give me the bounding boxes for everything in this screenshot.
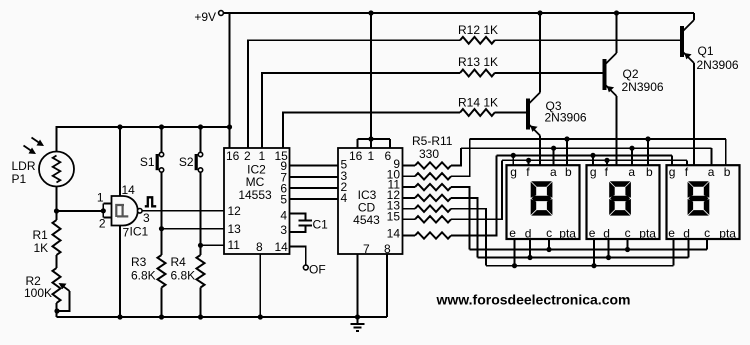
wire D3 b drop xyxy=(725,139,727,165)
wire D3 c drop xyxy=(706,239,708,250)
svg-text:6: 6 xyxy=(385,149,392,163)
switch S2 xyxy=(195,127,203,245)
+9V supply terminal xyxy=(194,10,223,24)
label IC3 pin2 xyxy=(341,180,348,194)
wire bus-b xyxy=(470,138,726,140)
ground xyxy=(351,317,365,331)
label IC3 pin11r xyxy=(388,178,401,192)
label D3 e xyxy=(668,226,675,240)
IC1 hysteresis symbol xyxy=(116,205,128,217)
wire bus-a xyxy=(461,147,711,149)
label IC3 pin1 top xyxy=(368,149,375,163)
label IC2 pin15 top xyxy=(275,149,289,163)
node D2 c xyxy=(625,247,630,252)
svg-text:14: 14 xyxy=(122,183,136,197)
LDR arrow 1 xyxy=(32,138,45,147)
label IC3 pin6 top xyxy=(385,149,392,163)
svg-text:R3: R3 xyxy=(131,255,147,269)
wire D2 f drop xyxy=(606,160,608,165)
label D2 g xyxy=(590,165,597,179)
label P1 xyxy=(12,172,27,186)
wire R2 bottom xyxy=(56,303,58,317)
label D1 b xyxy=(565,165,572,179)
label R5-R11 xyxy=(412,134,453,148)
node D2 b xyxy=(645,136,650,141)
label IC1 pin3 xyxy=(143,211,150,225)
svg-text:C1: C1 xyxy=(313,218,329,232)
label D3 f xyxy=(685,165,689,179)
label Q2 type xyxy=(622,80,664,94)
node LDR/R1/IC1 junction xyxy=(54,208,59,213)
svg-text:e: e xyxy=(589,226,596,240)
label Q3 type xyxy=(545,111,587,125)
node D2 e xyxy=(591,263,596,268)
node IC3 supply junction xyxy=(368,136,373,141)
wire D2 e drop xyxy=(593,239,595,266)
wire seg-f riser xyxy=(451,160,502,219)
wire D2 d drop xyxy=(608,239,610,258)
label IC3 CD xyxy=(358,200,376,214)
svg-text:b: b xyxy=(565,165,572,179)
svg-text:3: 3 xyxy=(143,211,150,225)
label Q1 xyxy=(698,44,714,58)
node S1/R3/pin13 junction xyxy=(159,226,164,231)
wire Q3 collector xyxy=(539,13,541,93)
IC1 pin7 wire xyxy=(119,226,121,318)
wire IC1 out to IC2 pin12 xyxy=(142,210,224,212)
wire Q1 collector xyxy=(693,13,695,20)
label IC3 pin10 xyxy=(387,168,401,182)
svg-text:LDR: LDR xyxy=(12,159,36,173)
wire seg-e riser xyxy=(451,209,486,266)
svg-text:g: g xyxy=(590,165,597,179)
svg-text:14: 14 xyxy=(275,240,289,254)
label D3 pta xyxy=(719,227,736,241)
label IC2 pin6 xyxy=(280,182,287,196)
svg-text:6.8K: 6.8K xyxy=(171,269,196,283)
IC2 box xyxy=(224,148,290,254)
svg-text:pta: pta xyxy=(639,227,656,241)
label IC1 pin1 xyxy=(97,191,104,205)
wire D3 d drop xyxy=(688,239,690,258)
svg-text:11: 11 xyxy=(228,238,241,252)
capacitor C1 xyxy=(290,214,313,233)
label IC1 pin14 xyxy=(122,183,136,197)
svg-text:2: 2 xyxy=(99,217,106,231)
svg-text:4: 4 xyxy=(280,209,287,223)
svg-text:1: 1 xyxy=(97,191,104,205)
svg-text:16: 16 xyxy=(226,149,240,163)
svg-text:www.forosdeelectronica.com: www.forosdeelectronica.com xyxy=(436,292,631,308)
wire bus-d xyxy=(478,257,689,259)
label IC2 pin7 xyxy=(280,171,287,185)
display DIS2 digit xyxy=(609,181,631,215)
svg-text:7: 7 xyxy=(363,242,370,256)
label D3 g xyxy=(669,165,676,179)
IC1 input wire xyxy=(57,210,104,212)
svg-text:2N3906: 2N3906 xyxy=(697,58,739,72)
svg-text:a: a xyxy=(708,165,715,179)
node rail-S1 junction xyxy=(159,124,164,129)
wire D1 c drop xyxy=(548,239,550,250)
node D1 a xyxy=(551,146,556,151)
resistor R14 xyxy=(460,109,495,116)
node rail-Q2 junction xyxy=(614,10,619,15)
svg-text:15: 15 xyxy=(387,210,401,224)
wire IC2pin6-IC3pin2 xyxy=(290,187,339,189)
label D2 f xyxy=(605,165,609,179)
svg-text:R4: R4 xyxy=(171,255,187,269)
svg-text:pta: pta xyxy=(719,227,736,241)
svg-text:100K: 100K xyxy=(24,286,52,300)
node rail-IC3pin7 xyxy=(355,314,360,319)
label IC2 pin13 xyxy=(228,222,242,236)
resistor R7 xyxy=(403,184,452,190)
wire D2 b drop xyxy=(647,139,649,165)
svg-text:14: 14 xyxy=(387,227,401,241)
label D1 d xyxy=(525,227,532,241)
node rail-pin16 junction xyxy=(227,124,232,129)
node rail-R3 xyxy=(159,314,164,319)
wire D1 b drop xyxy=(566,139,568,165)
svg-text:S2: S2 xyxy=(179,155,194,169)
label R12 xyxy=(458,23,498,37)
label D1 a xyxy=(550,165,557,179)
display DIS3 box xyxy=(667,165,740,239)
switch S1 xyxy=(156,127,164,229)
node D1 f xyxy=(526,158,531,163)
label LDR xyxy=(12,159,36,173)
wire D1 g drop xyxy=(512,155,514,165)
wire D1 a drop xyxy=(553,148,555,165)
transistor Q1 xyxy=(680,20,694,63)
wire D1 f drop xyxy=(528,160,530,165)
svg-text:2N3906: 2N3906 xyxy=(622,80,664,94)
wire R4 bottom xyxy=(200,288,202,318)
label IC1 pin7 xyxy=(123,226,130,240)
wire D3 a drop xyxy=(710,148,712,165)
node rail-Q3 junction xyxy=(537,10,542,15)
label R1 value xyxy=(34,241,49,255)
wire bus-c xyxy=(470,249,708,251)
label R13 xyxy=(458,55,498,69)
label D2 a xyxy=(628,165,635,179)
resistor R8 xyxy=(403,195,452,201)
svg-text:c: c xyxy=(546,226,552,240)
wire IC2 pin8 xyxy=(259,254,261,317)
label S1 xyxy=(140,155,155,169)
wire D3 g drop xyxy=(671,155,673,165)
label D1 f xyxy=(526,165,530,179)
IC1 input bracket xyxy=(103,203,111,217)
wire IC2 pin15 to R14 xyxy=(283,113,460,149)
svg-text:c: c xyxy=(704,226,710,240)
label R2 xyxy=(26,274,42,288)
label IC1 pin2 xyxy=(99,217,106,231)
label IC1 xyxy=(130,225,149,239)
label IC3 pin14r xyxy=(387,227,401,241)
wire R1-R2 xyxy=(56,255,58,268)
wire LDR-R1 xyxy=(56,187,58,221)
label IC2 14553 xyxy=(238,188,272,202)
label IC2 pin8 xyxy=(256,240,263,254)
LDR P1 zigzag xyxy=(53,156,61,183)
node D1 d xyxy=(527,255,532,260)
node D1 e xyxy=(512,263,517,268)
node rail-IC1pin7 xyxy=(117,314,122,319)
resistor R5 xyxy=(403,162,452,168)
wire +9V rail top xyxy=(224,12,695,14)
node IC1 input junction xyxy=(101,208,106,213)
label Q2 xyxy=(623,67,639,81)
wire D2 a drop xyxy=(631,148,633,165)
wire D1 e drop xyxy=(514,239,516,266)
svg-text:Q1: Q1 xyxy=(698,44,714,58)
label IC3 pin7b xyxy=(363,242,370,256)
wire seg-b riser xyxy=(451,139,470,176)
label Q1 type xyxy=(697,58,739,72)
svg-text:OF: OF xyxy=(309,263,326,277)
resistor R9 xyxy=(403,206,452,212)
transistor Q3 xyxy=(526,93,540,136)
display DIS3 digit xyxy=(688,181,710,215)
svg-text:a: a xyxy=(550,165,557,179)
svg-text:2N3906: 2N3906 xyxy=(545,111,587,125)
wire Q1 emitter to D3 xyxy=(693,63,695,165)
label IC3 pin13r xyxy=(387,199,401,213)
svg-text:2: 2 xyxy=(244,149,251,163)
svg-text:IC1: IC1 xyxy=(130,225,149,239)
resistor R4 xyxy=(197,255,205,288)
resistor R6 xyxy=(403,173,452,179)
wire LDR top rail xyxy=(57,127,230,151)
svg-text:g: g xyxy=(669,165,676,179)
svg-text:1: 1 xyxy=(368,149,375,163)
node D2 a xyxy=(629,146,634,151)
label IC2 xyxy=(247,163,266,177)
IC1 output bubble xyxy=(138,209,143,214)
label D3 a xyxy=(708,165,715,179)
label D3 d xyxy=(683,227,690,241)
resistor R11 xyxy=(403,232,452,238)
wire bus-e xyxy=(486,265,674,267)
label IC3 pin5 xyxy=(341,158,348,172)
label IC2 pin11 xyxy=(228,238,241,252)
label IC3 pin9 xyxy=(393,157,400,171)
node R2 wiper junction xyxy=(54,308,59,313)
label IC2 pin2 top xyxy=(244,149,251,163)
label R14 xyxy=(458,96,498,110)
IC3 box xyxy=(338,148,403,254)
svg-text:3: 3 xyxy=(280,223,287,237)
svg-text:12: 12 xyxy=(228,204,242,218)
wire IC3 pin8 gnd xyxy=(386,254,388,317)
wire bus-g xyxy=(497,154,672,156)
label IC2 pin16 xyxy=(226,149,240,163)
resistor R10 xyxy=(403,216,452,222)
label D2 b xyxy=(646,165,653,179)
label IC3 pin3 xyxy=(341,169,348,183)
svg-text:330: 330 xyxy=(419,147,439,161)
label D1 c xyxy=(546,226,552,240)
wire bus-f xyxy=(502,159,687,161)
label D2 d xyxy=(603,227,610,241)
wire ground rail xyxy=(57,316,388,318)
IC1 pin14 wire xyxy=(119,127,121,196)
IC1 pulse symbol xyxy=(145,197,156,206)
node D1 c xyxy=(546,247,551,252)
display DIS1 digit xyxy=(531,181,553,215)
label IC3 xyxy=(358,188,377,202)
LDR P1 circle xyxy=(39,152,74,187)
label D3 b xyxy=(724,165,731,179)
resistor R13 xyxy=(460,70,495,77)
svg-text:R5-R11: R5-R11 xyxy=(412,134,453,148)
svg-text:7: 7 xyxy=(123,226,130,240)
label IC2 pin12 xyxy=(228,204,242,218)
svg-text:4: 4 xyxy=(341,191,348,205)
wire pin13 xyxy=(162,228,225,230)
label R4 value xyxy=(171,269,196,283)
svg-text:b: b xyxy=(724,165,731,179)
svg-text:6.8K: 6.8K xyxy=(131,269,156,283)
label website xyxy=(436,292,631,308)
svg-text:5: 5 xyxy=(280,193,287,207)
label IC3 pin16 xyxy=(349,149,363,163)
label D1 pta xyxy=(559,227,576,241)
wire seg-g riser xyxy=(451,155,497,235)
display DIS1 box xyxy=(507,165,580,239)
svg-text:e: e xyxy=(668,226,675,240)
svg-text:R13 1K: R13 1K xyxy=(458,55,498,69)
label D1 e xyxy=(509,226,516,240)
svg-text:e: e xyxy=(509,226,516,240)
svg-text:1: 1 xyxy=(259,149,266,163)
svg-text:16: 16 xyxy=(349,149,363,163)
svg-text:P1: P1 xyxy=(12,172,27,186)
label R3 xyxy=(131,255,147,269)
label S2 xyxy=(179,155,194,169)
svg-text:4543: 4543 xyxy=(353,213,380,227)
label IC2 pin1 top xyxy=(259,149,266,163)
node rail-R4 xyxy=(198,314,203,319)
label IC2 pin5 xyxy=(280,193,287,207)
wire Q2 base xyxy=(495,72,603,74)
label IC3 pin4 xyxy=(341,191,348,205)
wire IC2pin9-IC3pin5 xyxy=(290,165,339,167)
wire S2-R4 xyxy=(200,245,202,255)
node rail-S2 junction xyxy=(198,124,203,129)
label IC3 pin8b xyxy=(384,242,391,256)
svg-text:b: b xyxy=(646,165,653,179)
wire D2 g drop xyxy=(592,155,594,165)
svg-text:+9V: +9V xyxy=(194,10,216,24)
label C1 xyxy=(313,218,329,232)
wire pin11 xyxy=(201,244,225,246)
node S2/R4/pin11 junction xyxy=(198,243,203,248)
label D3 c xyxy=(704,226,710,240)
op-amp IC1 NAND body xyxy=(112,196,138,226)
wire IC3 pin7 gnd xyxy=(357,254,359,317)
wire IC2pin7-IC3pin3 xyxy=(290,176,339,178)
label Q3 xyxy=(546,99,562,113)
resistor R12 xyxy=(460,37,495,44)
svg-text:Q2: Q2 xyxy=(623,67,639,81)
wire IC2pin5-IC3pin4 xyxy=(290,198,339,200)
svg-text:13: 13 xyxy=(228,222,242,236)
label IC2 pin14 xyxy=(275,240,289,254)
wire D2 c drop xyxy=(627,239,629,250)
label IC2 MC xyxy=(246,175,265,189)
transistor Q2 xyxy=(603,53,617,96)
wire IC2 pin14 to OF xyxy=(290,247,306,266)
label D1 g xyxy=(510,165,517,179)
wire D3 f drop xyxy=(686,160,688,165)
wire Q3 emitter to D1 xyxy=(539,136,541,166)
wire seg-c riser xyxy=(451,187,470,249)
svg-text:14553: 14553 xyxy=(238,188,272,202)
wire seg-a riser xyxy=(451,148,461,165)
wire Q1 base xyxy=(495,39,680,41)
label R3 value xyxy=(131,269,156,283)
label IC2 pin4 xyxy=(280,209,287,223)
label R4 xyxy=(171,255,187,269)
resistor R3 xyxy=(158,255,166,288)
wire IC2 pin16 riser xyxy=(229,13,231,148)
node D1 g xyxy=(511,153,516,158)
node D2 f xyxy=(604,158,609,163)
IC3 supply bus xyxy=(358,13,391,148)
wire Q2 collector xyxy=(616,13,618,53)
OF terminal xyxy=(303,263,325,277)
node rail-IC1pin14 junction xyxy=(117,124,122,129)
wire seg-d riser xyxy=(451,198,478,258)
wire IC2 pin2 to R12 xyxy=(248,40,460,148)
node rail-IC3 junction xyxy=(368,10,373,15)
node D1 b xyxy=(564,136,569,141)
svg-text:R1: R1 xyxy=(33,228,49,242)
label R1 xyxy=(33,228,49,242)
label D2 e xyxy=(589,226,596,240)
label D2 pta xyxy=(639,227,656,241)
svg-text:R14 1K: R14 1K xyxy=(458,96,498,110)
svg-text:a: a xyxy=(628,165,635,179)
label IC3 4543 xyxy=(353,213,380,227)
svg-text:R12 1K: R12 1K xyxy=(458,23,498,37)
svg-text:8: 8 xyxy=(256,240,263,254)
svg-text:1K: 1K xyxy=(34,241,49,255)
node D2 d xyxy=(606,255,611,260)
LDR arrow 2 xyxy=(24,146,37,155)
wire Q3 base xyxy=(495,112,526,114)
svg-text:pta: pta xyxy=(559,227,576,241)
resistor R2 xyxy=(53,268,61,303)
R2 wiper arm xyxy=(57,283,70,311)
node D2 g xyxy=(590,153,595,158)
wire D1 d drop xyxy=(529,239,531,258)
label IC3 pin15r xyxy=(387,210,401,224)
svg-text:g: g xyxy=(510,165,517,179)
label IC3 pin12r xyxy=(387,188,401,202)
node rail-IC2pin8 xyxy=(258,314,263,319)
svg-text:d: d xyxy=(603,227,610,241)
label IC2 pin9 xyxy=(280,159,287,173)
label 330 xyxy=(419,147,439,161)
wire Q2 emitter to D2 xyxy=(616,96,618,165)
svg-text:d: d xyxy=(683,227,690,241)
svg-text:d: d xyxy=(525,227,532,241)
wire IC2 pin1 to R13 xyxy=(262,73,460,148)
